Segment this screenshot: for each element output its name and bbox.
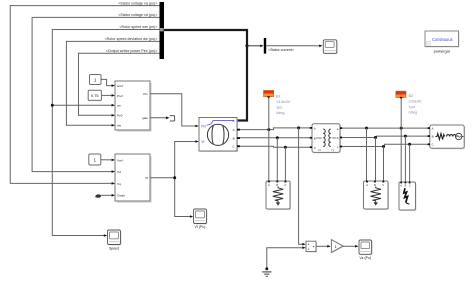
arrowhead into excitation Vref bbox=[112, 159, 115, 162]
junction dot phase A / Vs tap bbox=[297, 126, 300, 129]
svg-text:Continuous: Continuous bbox=[432, 37, 453, 42]
three-phase RLC load 1 bbox=[266, 181, 291, 210]
svg-text:A: A bbox=[314, 127, 316, 131]
wire load2 phase b tap down bbox=[375, 138, 377, 181]
junction dot phase b load2 tap bbox=[374, 136, 377, 139]
svg-text:C: C bbox=[382, 183, 384, 187]
svg-text:Yg: Yg bbox=[331, 148, 335, 152]
ground block (Vstab) bbox=[95, 194, 101, 197]
machine port stub A bbox=[237, 129, 240, 131]
wire load2 phase a tap down bbox=[366, 128, 368, 180]
source port stub A bbox=[428, 127, 430, 129]
svg-text:Vq: Vq bbox=[117, 182, 121, 186]
arrowhead into machine Pm bbox=[195, 125, 198, 128]
wire Vs voltage tap down from phase A bbox=[299, 128, 303, 244]
svg-text:gate: gate bbox=[142, 116, 148, 120]
junction dot phase A / B1 / load1 tap bbox=[267, 128, 270, 131]
wire branch wm to governor we input bbox=[52, 104, 112, 106]
transformer port stub A bbox=[310, 127, 312, 129]
svg-text:1: 1 bbox=[94, 158, 97, 163]
machine blue measurement curve to m port bbox=[207, 121, 235, 126]
bus selector Bus Selector1 (tall black bar) bbox=[160, 2, 165, 59]
svg-text:Vstab: Vstab bbox=[117, 194, 125, 198]
transformer port stub a bbox=[340, 127, 342, 129]
junction dot phase C load1 tap bbox=[284, 146, 287, 149]
label B2 text bbox=[409, 94, 423, 115]
svg-text:B: B bbox=[432, 135, 434, 139]
wire vd row2 from bus selector to excitation Vd bbox=[32, 17, 159, 171]
subsystem U1 steam turbine and governor bbox=[115, 81, 152, 132]
wire fault phase a tap down bbox=[400, 128, 402, 181]
svg-text:<Rotor speed wm (pu)>: <Rotor speed wm (pu)> bbox=[119, 25, 157, 29]
svg-text:Pe0: Pe0 bbox=[117, 113, 123, 117]
svg-text:0.75: 0.75 bbox=[91, 93, 99, 98]
junction dot phase c fault tap bbox=[408, 143, 411, 146]
svg-text:Vs (Pu): Vs (Pu) bbox=[359, 256, 371, 260]
svg-text:Speed: Speed bbox=[109, 246, 119, 250]
arrowhead into governor wref bbox=[112, 84, 115, 87]
wire phase B machine to transformer bbox=[240, 137, 311, 139]
wire constant1 to excitation Vref bbox=[101, 159, 112, 161]
arrowhead into machine Vf bbox=[195, 140, 198, 143]
svg-text:C: C bbox=[284, 183, 286, 187]
arrowhead into excitation Vstab bbox=[112, 194, 115, 197]
arrowhead into governor Pe0 bbox=[112, 114, 115, 117]
constant block 0.75 (Pref) bbox=[88, 90, 101, 100]
machine port stub C bbox=[237, 145, 240, 147]
wire load1 phase B tap down bbox=[276, 138, 278, 181]
wire load2 phase c tap down bbox=[383, 147, 385, 181]
wire thick measurement bus from machine m port to bus selector bbox=[164, 30, 247, 121]
svg-text:Vd: Vd bbox=[117, 170, 121, 174]
junction dot phase a B2 / fault tap bbox=[400, 127, 403, 130]
subsystem U2 excitation system bbox=[115, 154, 152, 203]
arrowhead into Speed scope bbox=[104, 234, 107, 237]
svg-text:A: A bbox=[233, 128, 235, 132]
wire branch Vf down to Vf scope bbox=[175, 178, 191, 217]
scope stator current bbox=[323, 40, 338, 55]
wire ground to V measurement minus bbox=[267, 248, 303, 268]
source port stub C bbox=[428, 143, 430, 145]
transformer winding 2 bbox=[329, 129, 331, 147]
source resistor zigzag bbox=[436, 134, 445, 140]
junction dot phase a load2 tap bbox=[365, 127, 368, 130]
constant block 1 (wref) bbox=[90, 75, 102, 85]
three-phase source block bbox=[428, 125, 466, 149]
svg-text:<Output active power Peo (pu): <Output active power Peo (pu)> bbox=[106, 49, 158, 53]
svg-text:0deg: 0deg bbox=[409, 111, 417, 115]
bus selector tap marker bbox=[160, 28, 164, 31]
measurement block B2 bbox=[396, 91, 406, 99]
svg-text:B1: B1 bbox=[276, 94, 281, 98]
wire phase C machine to transformer bbox=[240, 146, 311, 147]
wire governor Pm output to machine Pm input bbox=[150, 94, 196, 126]
wire governor gate output to terminator bbox=[150, 117, 166, 119]
wire wm row3 from bus selector down left side to Speed scope bbox=[52, 30, 159, 236]
wire phase a transformer to source bbox=[342, 127, 428, 129]
svg-text:A: A bbox=[432, 127, 434, 131]
transformer port stub C bbox=[310, 146, 312, 148]
fault lightning bolt bbox=[404, 188, 408, 202]
wire load1 phase A tap down bbox=[268, 130, 270, 181]
wire fault phase c tap down bbox=[409, 144, 411, 181]
junction dot phase B load1 tap bbox=[276, 136, 279, 139]
wire load1 phase C tap down bbox=[284, 147, 286, 180]
three-phase RLC load 2 bbox=[364, 181, 390, 210]
transformer port stub c bbox=[340, 146, 342, 148]
arrowhead into excitation Vq bbox=[112, 182, 115, 185]
svg-text:A: A bbox=[268, 183, 270, 187]
transformer mid lead bbox=[316, 137, 337, 139]
label B1 text bbox=[276, 94, 291, 115]
arrowhead into terminator bbox=[166, 116, 170, 119]
wire B2 down to phase a bbox=[400, 99, 402, 129]
svg-text:Vf: Vf bbox=[145, 176, 148, 180]
gain block bbox=[331, 240, 344, 254]
wire stator current selector to scope bbox=[266, 45, 319, 47]
svg-text:D1: D1 bbox=[318, 148, 322, 152]
svg-text:1pu: 1pu bbox=[409, 105, 415, 109]
ground block (Vs measurement) bbox=[262, 267, 271, 277]
three-phase fault block bbox=[399, 182, 417, 211]
powergui block bbox=[425, 31, 460, 48]
svg-text:0deg: 0deg bbox=[276, 111, 284, 115]
scope Vf (Pu) bbox=[194, 209, 208, 225]
svg-text:B: B bbox=[233, 136, 235, 140]
svg-text:wref: wref bbox=[117, 84, 123, 88]
junction dot Vf bbox=[173, 176, 176, 179]
scope Vs (Pu) bbox=[359, 240, 373, 255]
svg-text:A: A bbox=[366, 183, 368, 187]
wire dw row4 from bus selector to governor dw bbox=[66, 41, 159, 125]
wire Peo row5 from bus selector to governor Pe0 bbox=[79, 53, 160, 115]
voltage measurement block bbox=[306, 241, 317, 252]
svg-text:<Rotor speed deviation dw (pu: <Rotor speed deviation dw (pu)> bbox=[105, 37, 158, 41]
wire phase A machine to transformer bbox=[240, 128, 311, 130]
svg-text:Vref: Vref bbox=[117, 158, 123, 162]
wire constant 0.75 to governor Pref bbox=[101, 94, 112, 96]
wire phase b transformer to source bbox=[342, 136, 428, 137]
svg-text:B: B bbox=[314, 137, 316, 141]
arrowhead into governor dw bbox=[112, 124, 115, 127]
measurement block B1 bbox=[264, 90, 274, 98]
wire B1 down to phase A bbox=[268, 98, 270, 130]
arrowhead into stator current scope bbox=[319, 45, 322, 48]
svg-text:C: C bbox=[409, 184, 411, 187]
wire constant1 to governor wref bbox=[101, 79, 112, 85]
wire gain to Vs scope bbox=[343, 245, 355, 247]
svg-text:C: C bbox=[432, 143, 434, 147]
svg-text:Pm: Pm bbox=[201, 125, 206, 129]
synchronous machine block bbox=[199, 118, 240, 153]
svg-text:powergui: powergui bbox=[434, 49, 450, 54]
svg-text:Pm: Pm bbox=[143, 92, 148, 96]
svg-text:Pref: Pref bbox=[117, 94, 123, 98]
arrowhead into Vs scope bbox=[355, 245, 358, 248]
machine inner winding bars bbox=[212, 126, 213, 144]
svg-text:we: we bbox=[117, 104, 121, 108]
wire fault phase b tap down bbox=[404, 136, 406, 181]
machine port stub B bbox=[237, 137, 240, 139]
svg-text:<Stator voltage vd (pu)>: <Stator voltage vd (pu)> bbox=[118, 13, 157, 17]
wire branch to stator current selector bbox=[247, 45, 261, 47]
terminator block bbox=[170, 116, 175, 121]
source inductor coil bbox=[447, 135, 457, 137]
svg-text:Vf (Pu): Vf (Pu) bbox=[195, 225, 206, 229]
scope Speed bbox=[108, 230, 122, 246]
bus selector2 small bar (stator current) bbox=[264, 38, 266, 54]
svg-text:C: C bbox=[314, 146, 316, 150]
arrowhead into excitation Vd bbox=[112, 170, 115, 173]
transformer winding 1 bbox=[323, 129, 325, 147]
machine stator circle bbox=[207, 124, 228, 145]
arrowhead into Vf scope bbox=[190, 215, 193, 218]
transformer port stub B bbox=[310, 137, 312, 139]
svg-text:<Stator voltage vq (pu)>: <Stator voltage vq (pu)> bbox=[118, 1, 157, 5]
transformer port stub b bbox=[340, 137, 342, 139]
wire excitation Vf output to machine Vf and to Vf scope bbox=[150, 142, 196, 178]
arrowhead into governor we bbox=[112, 104, 115, 107]
junction dot phase c load2 tap bbox=[382, 145, 385, 148]
arrowhead into governor Pref bbox=[112, 94, 115, 97]
svg-text:1pu: 1pu bbox=[276, 105, 282, 109]
arrowhead into V measurement + bbox=[302, 243, 305, 246]
arrowhead into stator current selector bbox=[260, 45, 263, 48]
wire vq row1 from bus selector to excitation Vq bbox=[10, 6, 159, 184]
transformer block bbox=[310, 124, 342, 154]
wire ground to excitation Vstab bbox=[101, 194, 112, 196]
wire phase c transformer to source bbox=[342, 144, 428, 146]
svg-text:1: 1 bbox=[94, 78, 97, 83]
wire V measurement output to gain bbox=[316, 245, 328, 247]
arrowhead into gain bbox=[327, 245, 330, 248]
svg-text:230e3V: 230e3V bbox=[409, 100, 423, 104]
junction dot wm/we bbox=[51, 104, 54, 107]
source AC circle bbox=[456, 133, 462, 139]
arrowhead into V measurement - bbox=[302, 246, 305, 249]
svg-text:Vf: Vf bbox=[201, 140, 204, 144]
junction dot on bus for stator current branch bbox=[245, 44, 248, 47]
junction dot phase b fault tap bbox=[404, 135, 407, 138]
svg-text:B2: B2 bbox=[409, 94, 414, 98]
constant block 1 (Vref) bbox=[89, 154, 101, 165]
source port stub B bbox=[428, 135, 430, 137]
svg-text:13.8e3V: 13.8e3V bbox=[276, 100, 291, 104]
svg-text:<Stator current>: <Stator current> bbox=[268, 48, 294, 52]
